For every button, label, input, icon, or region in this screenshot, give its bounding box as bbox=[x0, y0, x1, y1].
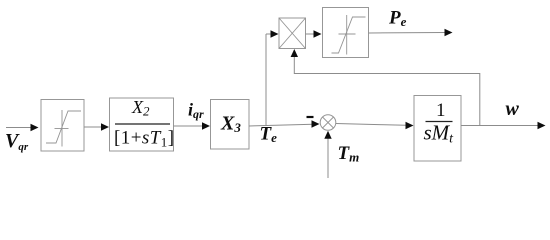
wire Pe output bbox=[369, 29, 453, 36]
wire branch vertical from Te line bbox=[265, 34, 267, 126]
svg-text:1: 1 bbox=[436, 100, 446, 121]
wire X3 to summing junction bbox=[249, 120, 320, 127]
wire w output bbox=[461, 122, 546, 129]
wire input Vqr bbox=[6, 124, 39, 131]
saturation limiter block 2 bbox=[323, 8, 369, 58]
multiplier block bbox=[279, 18, 306, 49]
wire summing junction to inertia block bbox=[336, 122, 414, 129]
wire block1 to block2 bbox=[84, 123, 109, 130]
transfer function block X2/[1+sT1] bbox=[110, 97, 175, 151]
saturation limiter block 1 bbox=[41, 100, 84, 152]
wire multiplier to saturation limiter 2 bbox=[306, 30, 322, 37]
label minus sign bbox=[307, 116, 314, 118]
svg-text:w: w bbox=[506, 98, 520, 120]
wire Tm input bbox=[324, 131, 331, 178]
wire block2 to X3 bbox=[174, 122, 211, 129]
wire branch into multiplier bbox=[266, 30, 279, 37]
wire feedback w to multiplier bbox=[291, 49, 480, 126]
gain block X3 bbox=[211, 100, 250, 150]
summing junction bbox=[320, 115, 336, 131]
inertia block 1/sMt bbox=[414, 96, 461, 162]
